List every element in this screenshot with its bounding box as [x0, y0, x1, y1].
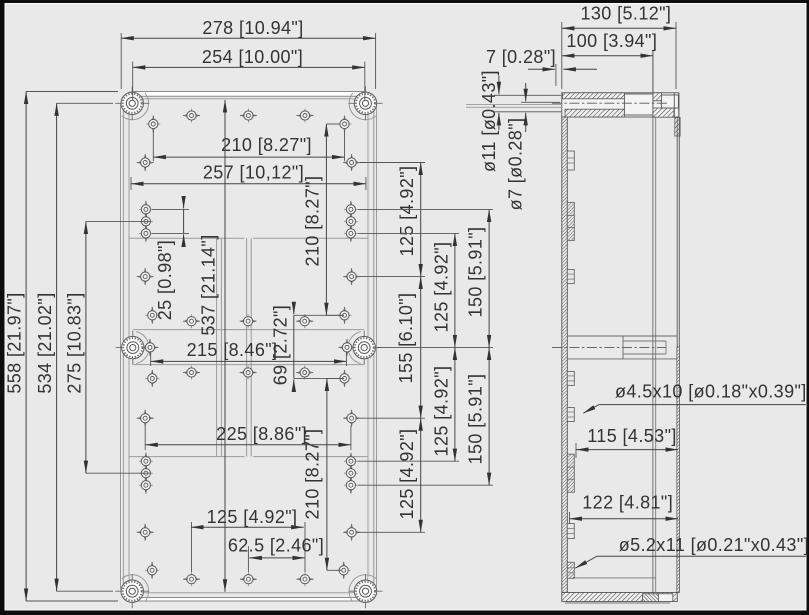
dim 225 extension lines [144, 426, 146, 450]
dim 155 [6.10"] col A2 [420, 277, 422, 419]
mounting hole (152.3,315.3) [145, 307, 159, 324]
svg-text:534 [21.02"]: 534 [21.02"] [35, 292, 55, 393]
cover inner line / 100 extension [652, 50, 654, 594]
svg-text:155 [6.10"]: 155 [6.10"] [396, 293, 416, 384]
mounting hole (145.9,461.2) [139, 453, 153, 470]
dim 115 extension line [575, 443, 577, 458]
mid screw boss outline [567, 335, 677, 337]
svg-text:115 [4.53"]: 115 [4.53"] [587, 426, 677, 446]
mounting hole (145.2,532.3) [137, 524, 154, 541]
mounting hole (304.7,372.5) [296, 366, 313, 380]
mounting hole (145.9,473.2) [139, 465, 153, 482]
dim 254 [10.00"] [133, 66, 365, 68]
dim o7 [o0.28"] arrows [525, 83, 527, 101]
mounting hole (248.4,115.5) [240, 109, 257, 123]
svg-text:130 [5.12"]: 130 [5.12"] [580, 4, 671, 24]
dim 210 right top extension lines [326, 123, 340, 125]
mounting hole (350.9,461.2) [344, 453, 358, 470]
dim 210 [8.27"] horizontal top [153, 156, 344, 158]
center channel right line [250, 238, 252, 456]
mounting hole (145.2,162.5) [137, 154, 154, 171]
dim 25 [0.98"] vertical [183, 196, 185, 208]
dim 225 [8.86"] [145, 444, 351, 446]
molding rib line lower [129, 456, 245, 458]
mid screw boss arc left [136, 332, 149, 364]
dim 150 [5.91"] col C1 [488, 209, 490, 347]
right wall upper plain lines [676, 118, 678, 348]
wall boss at y=473.2 [567, 454, 574, 492]
svg-text:225 [8.86"]: 225 [8.86"] [216, 424, 307, 444]
right col B extension lines [358, 232, 459, 234]
svg-text:125 [4.92"]: 125 [4.92"] [397, 429, 417, 520]
mid screw boss arc right [348, 332, 361, 364]
front view: enclosure outer outline [121, 92, 377, 602]
mounting hole (248.4,579.2) [240, 572, 257, 586]
top screw axis dash-dot [552, 102, 668, 104]
dim 210 [8.27"] vertical top-right [325, 124, 327, 315]
dim 100 [3.94"] [562, 55, 653, 57]
svg-text:7 [0.28"]: 7 [0.28"] [486, 47, 556, 67]
dim 254 extension lines [132, 62, 134, 101]
dim 278 extension lines [120, 33, 122, 89]
inner bottom line [567, 577, 655, 579]
dim o11 extension lines [494, 94, 561, 96]
dim 62.5 [2.46"] [249, 557, 305, 559]
bottom wall hatched [562, 593, 678, 602]
bottom right step [658, 594, 672, 602]
left rib line b [220, 238, 222, 456]
dim 215 extension lines [150, 352, 152, 366]
front view: lid edge inner line [123, 96, 374, 597]
arm end cap outer line 2 [678, 93, 680, 118]
dim o11 [o0.43"] arrows [498, 76, 500, 94]
right col A extension lines [360, 162, 425, 164]
svg-text:210 [8.27"]: 210 [8.27"] [221, 135, 312, 155]
svg-text:150 [5.91"]: 150 [5.91"] [466, 374, 486, 465]
svg-text:100 [3.94"]: 100 [3.94"] [566, 31, 657, 51]
mounting hole (305.0,115.5) [297, 109, 314, 123]
svg-text:150 [5.91"]: 150 [5.91"] [466, 227, 486, 318]
svg-text:257 [10,12"]: 257 [10,12"] [203, 163, 304, 183]
dim 25 cluster extension lines [152, 208, 189, 210]
mounting hole (191.5,579.2) [183, 572, 200, 586]
dim 125 [4.92"] col B2 [454, 347, 456, 461]
arm bottom hatch strip [565, 109, 625, 117]
dim 122 extension line [569, 512, 571, 524]
dim 257 [10,12"] [131, 183, 366, 185]
arm hatched block right [653, 93, 662, 101]
svg-text:ø4.5x10 [ø0.18"x0.39"]: ø4.5x10 [ø0.18"x0.39"] [615, 381, 807, 401]
svg-text:62.5 [2.46"]: 62.5 [2.46"] [228, 536, 324, 556]
mounting hole (145.9,485.2) [139, 477, 153, 494]
dim 125 [4.92"] col B1 [454, 233, 456, 347]
mid screw right [347, 331, 381, 365]
mounting hole (153.3,124.0) [146, 116, 160, 133]
dim 115 [4.53"] [576, 449, 678, 451]
dim 69 extension lines [294, 314, 344, 316]
left rib line a [216, 238, 218, 456]
mounting hole (305.0,579.2) [297, 572, 314, 586]
dim 275 [10.83"] vertical [85, 221, 87, 473]
svg-text:537 [21.14"]: 537 [21.14"] [199, 234, 219, 335]
dim 130 extension lines [561, 22, 563, 89]
mounting hole (343.7,570.3) [337, 562, 351, 579]
svg-text:275 [10.83"]: 275 [10.83"] [64, 292, 84, 393]
svg-text:69 [2.72"]: 69 [2.72"] [271, 305, 291, 385]
corner screw top-left [115, 86, 149, 120]
mounting hole (351.6,276.6) [343, 268, 360, 285]
mounting hole (145.2,418.2) [137, 410, 154, 427]
dim 210 [8.27"] vertical bottom-right [326, 378, 328, 570]
cover inner line 2 [655, 118, 657, 595]
mounting hole (145.9,221.4) [139, 213, 153, 230]
mounting hole (191.5,372.5) [183, 366, 200, 380]
dim 125 [4.92"] col A3 [420, 418, 422, 532]
dim 125 [4.92"] col A1 [420, 163, 422, 277]
svg-text:215 [8.46"]: 215 [8.46"] [187, 340, 278, 360]
corner screw boss arc top-right [349, 93, 376, 120]
mounting hole (145.2,276.6) [137, 268, 154, 285]
mounting hole (152.3,378.4) [145, 370, 159, 387]
arm end cap [661, 95, 678, 108]
corner screw boss arc bottom-right [349, 575, 376, 602]
wall boss at y=414.5 [567, 408, 574, 422]
dim o7 extension line [521, 101, 560, 103]
mounting hole (344.5,378.4) [338, 370, 352, 387]
mounting hole (350.9,221.4) [344, 213, 358, 230]
svg-text:ø11 [ø0.43"]: ø11 [ø0.43"] [479, 70, 499, 172]
mounting hole (248.1,321.2) [240, 314, 257, 328]
svg-text:122 [4.81"]: 122 [4.81"] [582, 493, 673, 513]
dim 257 extension lines [130, 177, 132, 190]
wall boss at y=160.5 [567, 151, 574, 170]
svg-text:278 [10.94"]: 278 [10.94"] [202, 18, 303, 38]
svg-text:ø5.2x11 [ø0.21"x0.43"]: ø5.2x11 [ø0.21"x0.43"] [619, 535, 809, 555]
mounting hole (351.6,532.3) [343, 524, 360, 541]
mounting hole (351.6,418.2) [343, 410, 360, 427]
mounting hole (145.9,209.4) [139, 201, 153, 218]
corner screw bottom-left [115, 574, 149, 608]
svg-text:25 [0.98"]: 25 [0.98"] [155, 240, 175, 320]
bore lines left of arm [466, 103, 562, 105]
dim 558 [21.97"] vertical [25, 92, 27, 602]
dim 150 [5.91"] col C2 [488, 347, 490, 485]
mid screw left [116, 331, 150, 365]
side view left wall hatched [562, 115, 568, 593]
dim 100 extension line [652, 50, 654, 92]
bottom outer line [565, 602, 670, 604]
dim 215 [8.46"] [151, 360, 347, 362]
svg-text:125 [4.92"]: 125 [4.92"] [207, 507, 298, 527]
dim 7 [0.28"] [555, 64, 557, 86]
mounting hole (350.9,473.2) [344, 465, 358, 482]
dim 558 extension lines [26, 91, 118, 93]
mounting hole (248.1,372.5) [240, 366, 257, 380]
mid band line upper [133, 329, 364, 331]
wall boss at y=378.4 [567, 371, 574, 385]
mounting hole (347.0,347.4) [339, 339, 356, 356]
wall boss at y=570.3 [567, 562, 574, 578]
mounting hole (344.5,124.0) [338, 116, 352, 133]
corner screw bottom-right [349, 574, 383, 608]
mounting hole (350.9,233.4) [344, 225, 358, 242]
dim 278 [10.94"] [121, 37, 375, 39]
mounting hole (350.9,485.2) [344, 477, 358, 494]
right col C extension lines [358, 208, 493, 210]
wall boss at y=276.6 [567, 270, 574, 284]
svg-text:210 [8.27"]: 210 [8.27"] [303, 176, 323, 267]
right wall lower hatched [677, 347, 680, 593]
leader o5.2x11 [575, 556, 806, 568]
svg-text:125 [4.92"]: 125 [4.92"] [432, 366, 452, 457]
dim 210 top extension lines [152, 131, 154, 161]
dim 125 [4.92"] bottom [191, 526, 304, 528]
mounting hole (344.5,315.3) [338, 307, 352, 324]
arm screw slot [624, 94, 653, 115]
dim 69 [2.72"] vertical [293, 302, 295, 314]
svg-text:125 [4.92"]: 125 [4.92"] [397, 166, 417, 257]
dim 210 right bottom extension lines [327, 377, 344, 379]
svg-text:558 [21.97"]: 558 [21.97"] [5, 292, 25, 393]
mounting hole (350.9,209.4) [344, 201, 358, 218]
front view: inner recess outline [129, 99, 368, 593]
bottom screw boss block [642, 594, 658, 602]
dim 62.5 extension lines [247, 546, 249, 572]
arm end cap outer line [673, 93, 675, 118]
svg-text:254 [10.00"]: 254 [10.00"] [202, 47, 303, 67]
mounting hole (351.6,162.5) [343, 154, 360, 171]
leader o4.5x10 [583, 405, 806, 414]
svg-text:ø7 [ø0.28"]: ø7 [ø0.28"] [506, 118, 526, 211]
corner screw boss arc bottom-left [122, 575, 149, 602]
mounting hole (145.9,233.4) [139, 225, 153, 242]
dim 534 extension lines [57, 102, 113, 104]
center channel left line [246, 238, 248, 456]
mounting hole (150.0,347.4) [142, 339, 159, 356]
side view top flange arm outline [562, 93, 679, 117]
wall boss at y=531 [567, 524, 574, 539]
dim 122 [4.81"] [570, 518, 679, 520]
wall boss at y=221.4 [567, 202, 574, 240]
corner screw top-right [349, 86, 383, 120]
dim 275 extension lines [86, 220, 150, 222]
mounting hole (191.5,321.2) [183, 314, 200, 328]
dim 130 [5.12"] [562, 27, 676, 29]
corner screw boss arc top-left [122, 93, 149, 120]
molding rib line upper [129, 237, 245, 239]
mounting hole (152.1,570.3) [145, 562, 159, 579]
dim 125 bottom extension lines [191, 522, 193, 572]
right lip hatched below arm [675, 118, 680, 137]
svg-text:125 [4.92"]: 125 [4.92"] [432, 242, 452, 333]
dim 534 [21.02"] vertical [56, 103, 58, 591]
mounting hole (304.7,321.2) [296, 314, 313, 328]
mid screw axis dash-dot [552, 346, 666, 348]
mounting hole (191.5,115.5) [183, 109, 200, 123]
dim 537 line [224, 100, 226, 592]
mid band line lower [133, 364, 364, 366]
arm top hatch strip [563, 93, 625, 99]
